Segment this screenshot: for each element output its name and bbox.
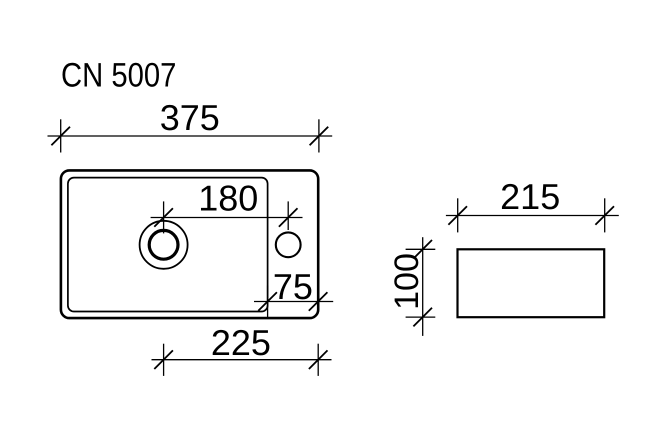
- dim 225 left tick: [154, 350, 173, 369]
- dim 180 label: [198, 177, 258, 218]
- dim 75 dimension line: [254, 301, 333, 303]
- dim 225 dimension line: [152, 359, 332, 361]
- dim 375 left tick: [51, 127, 70, 146]
- dim 215 left tick: [448, 206, 467, 225]
- dim 180 dimension line: [151, 217, 303, 219]
- side view rectangle: [458, 249, 605, 317]
- dim 375 dimension line: [48, 135, 333, 137]
- dim 215 dimension line: [446, 215, 619, 217]
- svg-text:375: 375: [160, 97, 220, 138]
- svg-text:180: 180: [198, 177, 258, 218]
- dim 100 top tick: [413, 240, 432, 259]
- drain outer circle: [140, 221, 188, 269]
- dim 225 label: [211, 322, 271, 363]
- dim 375 left extension line: [60, 119, 62, 152]
- svg-text:CN 5007: CN 5007: [61, 56, 176, 94]
- dim 215 right extension line: [604, 198, 606, 232]
- basin bowl inner edge: [68, 178, 268, 312]
- dim 180 right extension line (faucet centre): [287, 201, 289, 230]
- title CN 5007: [61, 56, 176, 94]
- faucet hole circle: [276, 232, 301, 257]
- dim 75 left extension line (bowl right edge): [267, 286, 269, 318]
- dim 180 left extension line (drain centre): [163, 201, 165, 233]
- dim 75 label: [273, 266, 313, 307]
- dim 215 left extension line: [457, 198, 459, 232]
- dim 100 dimension line: [422, 237, 424, 336]
- drain inner circle: [149, 230, 178, 259]
- dim 100 top extension stub: [406, 248, 436, 250]
- dim 225 left extension line: [163, 344, 165, 376]
- svg-text:225: 225: [211, 322, 271, 363]
- svg-text:75: 75: [273, 266, 313, 307]
- dim 215 right tick: [595, 206, 614, 225]
- dim 100 bottom extension stub: [406, 316, 436, 318]
- dim 180 left tick: [154, 208, 173, 227]
- dim 225 right extension line: [317, 344, 319, 376]
- dim 180 right tick: [279, 208, 298, 227]
- dim 100 bottom tick: [413, 308, 432, 327]
- svg-text:215: 215: [500, 176, 560, 217]
- dim 75 left tick: [258, 292, 277, 311]
- dim 225 right tick: [309, 350, 328, 369]
- svg-text:100: 100: [388, 253, 426, 310]
- dim 375 label: [160, 97, 220, 138]
- sink outer rim (top view): [61, 170, 318, 318]
- dim 375 right tick: [310, 127, 329, 146]
- dim 100 label (rotated): [388, 253, 426, 310]
- dim 215 label: [500, 176, 560, 217]
- dim 75 right tick: [309, 292, 328, 311]
- dim 375 right extension line: [318, 119, 320, 152]
